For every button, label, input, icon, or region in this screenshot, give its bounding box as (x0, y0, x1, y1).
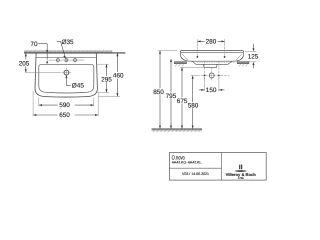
wall line (24, 52, 125, 54)
V&B logo amphora (234, 165, 247, 172)
svg-text:650: 650 (59, 112, 70, 119)
drain trap centerline vertical (211, 68, 213, 81)
svg-text:850: 850 (153, 89, 164, 96)
dim 125 (245, 44, 257, 69)
svg-text:70: 70 (30, 41, 38, 48)
svg-text:675: 675 (177, 98, 188, 105)
centerlines vertical (280 refs) (196, 44, 198, 58)
trap horizontal centerline (197, 75, 230, 77)
floor height dims (158, 51, 203, 129)
bowl outline (39, 64, 94, 93)
counter band left (174, 62, 186, 64)
850 line (159, 51, 161, 88)
svg-text:Ø35: Ø35 (62, 39, 75, 46)
rim top (181, 51, 244, 54)
bolt dots (204, 75, 206, 77)
apron inner diagonal left (182, 54, 188, 60)
drain housing box (204, 64, 218, 67)
svg-text:150: 150 (206, 87, 217, 94)
drain circle (64, 70, 69, 75)
dim 205 (25, 53, 61, 72)
580 extension (191, 75, 197, 77)
svg-text:V03 / 14.06.2021: V03 / 14.06.2021 (182, 172, 209, 176)
svg-text:Ø45: Ø45 (72, 83, 85, 90)
bolt hole centerlines (204, 61, 206, 81)
dim 650 (33, 91, 98, 116)
dim Ø45 (65, 75, 70, 86)
dim 295 (96, 64, 110, 92)
dim 70 (38, 44, 48, 64)
ground line (152, 129, 203, 132)
counter band right (237, 62, 249, 64)
fixing dots on deck (197, 56, 199, 58)
svg-text:295: 295 (101, 76, 112, 83)
dim 150 (199, 77, 224, 91)
svg-text:4A41KG 4A41KL: 4A41KG 4A41KL (172, 161, 202, 165)
795 line (170, 59, 172, 93)
body sides and bottom (181, 53, 244, 61)
tap holes centerline (49, 59, 85, 61)
svg-text:580: 580 (188, 103, 199, 110)
svg-text:125: 125 (248, 54, 259, 61)
svg-text:795: 795 (166, 93, 177, 100)
svg-text:280: 280 (206, 39, 217, 46)
rim extension to 850 (158, 50, 177, 52)
580 line (192, 76, 194, 102)
dim Ø35 (57, 42, 66, 59)
basin outer outline (35, 53, 97, 97)
dim 590 (39, 98, 94, 107)
svg-text:205: 205 (19, 60, 30, 67)
wall hatch band (24, 50, 112, 52)
trap circle (209, 73, 214, 78)
underside tray (192, 61, 232, 64)
deck back line (36, 56, 96, 58)
svg-text:1748: 1748 (238, 177, 244, 180)
hidden dotted line (197, 62, 236, 64)
apron inner diagonal right (236, 54, 242, 60)
tap hole centre (65, 59, 68, 62)
svg-text:460: 460 (113, 73, 124, 80)
675 extension (180, 66, 203, 68)
dim 280 (197, 39, 224, 44)
dim 460 (99, 53, 121, 96)
svg-text:590: 590 (59, 102, 70, 109)
675 line (181, 68, 183, 98)
tap hole left (56, 59, 59, 62)
tap hole right (74, 59, 77, 62)
